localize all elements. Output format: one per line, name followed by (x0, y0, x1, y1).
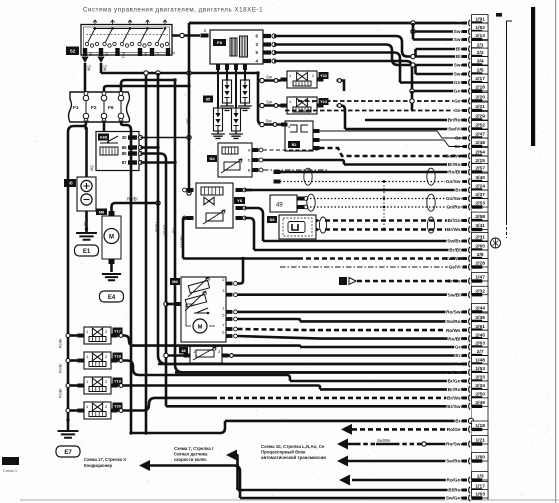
injector Y18 feed stub (68, 359, 78, 362)
ECU pin rung 2/52 wire Sw/Vi (345, 121, 488, 133)
svg-text:Ro/Bl: Ro/Bl (155, 222, 160, 232)
svg-text:2/47: 2/47 (475, 132, 485, 138)
injector Y17 label (113, 328, 123, 335)
schema label bottom left (2, 457, 19, 465)
ECU pin rung 1/17 wire Bl/Ro (238, 482, 489, 494)
svg-text:2/45: 2/45 (475, 332, 485, 338)
svg-text:Y24: Y24 (320, 100, 328, 104)
ECU pin rung 1/47 wire Br/Ge (448, 273, 488, 285)
ECU pin rung 2/31 wire Sw/Br (263, 233, 488, 245)
DIS pin 2 left (201, 34, 209, 38)
svg-text:2/24: 2/24 (475, 184, 485, 190)
wire fuse F6 top to Ro riser (121, 80, 175, 92)
wire ignition pin15 down to bus row (100, 63, 103, 73)
relay K68 box (96, 132, 139, 171)
svg-text:Br/Sw: Br/Sw (447, 404, 461, 409)
svg-text:2/17: 2/17 (475, 76, 485, 82)
ECU pin rung 3/4 wire Sw (413, 57, 488, 69)
wire M4 pin2 up to 2/8 (238, 259, 244, 284)
svg-text:P54: P54 (121, 52, 125, 58)
svg-text:S8: S8 (270, 217, 276, 222)
M4 label (170, 278, 180, 285)
svg-text:Ro/Sw: Ro/Sw (446, 442, 461, 447)
svg-text:B2: B2 (292, 143, 297, 147)
ground junction E7 (66, 418, 69, 421)
svg-text:Ro/Ge: Ro/Ge (447, 427, 461, 432)
svg-text:E7: E7 (64, 450, 72, 456)
plugs label (203, 96, 213, 103)
ECU pin rung 2/7 wire Br (225, 347, 488, 359)
svg-text:Br/Ws: Br/Ws (447, 396, 461, 401)
wire riser x131 to ground row (131, 421, 225, 433)
bus Sw vertical (188, 23, 191, 193)
svg-text:Br/Ro: Br/Ro (448, 387, 461, 392)
fuel pump feed wire Ro/Bl (112, 203, 159, 211)
svg-text:2/8: 2/8 (477, 252, 484, 258)
svg-text:2/5: 2/5 (477, 68, 484, 74)
bus Ro riser to 1/53 (175, 80, 466, 372)
wire fuse F1 bottom to left rail (68, 121, 86, 421)
svg-text:Sw: Sw (454, 37, 461, 42)
svg-text:Br: Br (83, 222, 88, 227)
svg-text:Схема 10, Стрелка L,N,Ao, Се: Схема 10, Стрелка L,N,Ao, Се (261, 444, 325, 449)
wire connector pin3 to 2/64 heavy dashed (320, 148, 467, 156)
M4 actuator box (181, 277, 226, 342)
ECU pin rung 2/47 wire Gr (455, 130, 488, 142)
wire N4 A dashed stub (263, 149, 318, 151)
drop 2/1 (414, 49, 417, 57)
svg-text:49: 49 (276, 203, 283, 209)
svg-text:Sw: Sw (454, 63, 461, 68)
node 2/20 dashed (410, 99, 414, 103)
special 1/47 marker (339, 277, 347, 285)
arrow down pin30 (81, 57, 88, 64)
ECU pin rung 1/63 wire Sw/Gn (240, 490, 488, 502)
wire Y32 out to 2/18 (337, 81, 345, 92)
wire battery to junction (85, 128, 88, 177)
injector Y17 box (78, 327, 118, 344)
svg-text:2/20: 2/20 (475, 95, 485, 101)
svg-text:1/47: 1/47 (475, 275, 485, 281)
N4 pins A D B (248, 148, 263, 173)
svg-text:Ge/Vi: Ge/Vi (449, 265, 461, 270)
Sw feed bus for valves (258, 73, 281, 125)
scan edge right (555, 0, 556, 503)
svg-text:2/32: 2/32 (475, 288, 485, 294)
ECU pin rung 1/91 wire Sw (189, 15, 488, 27)
svg-text:2/53: 2/53 (475, 201, 485, 207)
drop 1/92 (412, 23, 415, 32)
svg-text:Sw/Bl: Sw/Bl (448, 292, 461, 297)
svg-text:A: A (248, 148, 251, 153)
svg-text:Br: Br (455, 419, 460, 424)
ECU pin rung 2/37 wire Gn/Sw (303, 190, 488, 202)
shield ellipse pair1 left (304, 168, 312, 185)
ECU pin rung 2/33 wire Br/Gn (290, 373, 488, 385)
ECU pin rung 2/50 wire Br/Ws (212, 390, 488, 402)
svg-text:Gr: Gr (455, 345, 461, 350)
wire M4 pin5 jog (238, 319, 301, 321)
svg-text:Схема 7, Стрелка I: Схема 7, Стрелка I (174, 446, 213, 451)
ECU pin rung 2/18 wire Gn (412, 83, 488, 95)
wire relay 86 stub (141, 146, 159, 149)
svg-text:Sw: Sw (186, 118, 191, 125)
wire 2/8 solid then dashed (183, 257, 298, 260)
wire Y8 C to 2/31 (245, 208, 264, 241)
svg-text:Ro/Bl: Ro/Bl (59, 389, 63, 398)
injector Y20 feed stub (68, 409, 78, 412)
svg-text:Bl: Bl (456, 47, 461, 52)
drop 2/5 (414, 65, 417, 74)
svg-text:85: 85 (206, 97, 211, 102)
injector Y17 feed stub (68, 334, 78, 337)
ECU pin rung 1/92 wire Sw (413, 23, 488, 35)
svg-text:Ge: Ge (454, 108, 461, 113)
svg-text:Sw: Sw (266, 119, 273, 124)
relay label (98, 134, 109, 141)
svg-text:Gn/Ro: Gn/Ro (446, 205, 460, 210)
arrow 1/3 (339, 475, 350, 486)
svg-text:1/53: 1/53 (475, 366, 485, 372)
relay pins 30 86 85 87 (122, 135, 143, 165)
oxygen sensor label (267, 216, 277, 223)
ECU pin rung 2/1 wire Bl (416, 41, 489, 53)
svg-text:Gn: Gn (454, 89, 461, 94)
svg-text:Ro: Ro (172, 228, 177, 234)
ECU pin rung 1/18 wire Ro/Ge (352, 421, 488, 433)
ECU pin rung 2/28 wire Ge/Vi (280, 259, 488, 271)
battery ground wire (85, 211, 88, 233)
ECU pin rung 3/41 wire Br/Ws (325, 221, 488, 233)
bus Ro/Bl vertical (157, 73, 160, 203)
svg-text:Ro/Bl: Ro/Bl (59, 339, 63, 348)
svg-text:2/61: 2/61 (475, 324, 485, 330)
ECU pin rung 2/61 wire Ro/Ws (310, 322, 488, 334)
ECU pin rung 2/5 wire Sw (416, 66, 489, 78)
ECU pin rung Br-open wire Br (225, 418, 474, 423)
svg-text:Ro/Bl: Ro/Bl (59, 364, 63, 373)
svg-text:2/18: 2/18 (475, 85, 485, 91)
svg-text:2/48: 2/48 (475, 140, 485, 146)
ECU pin rung 2/21 wire Ge (285, 102, 488, 114)
purge valve Y24 label (319, 98, 329, 105)
svg-text:Br: Br (455, 353, 460, 358)
svg-text:M: M (109, 235, 114, 241)
svg-text:F2: F2 (91, 105, 97, 111)
svg-text:2/29: 2/29 (475, 114, 485, 120)
MAP sensor N4 box (218, 143, 252, 177)
svg-text:2/58: 2/58 (475, 214, 485, 220)
shield ellipse pair3 right (427, 217, 434, 233)
crank sensor pair stubs (274, 170, 281, 184)
wire relay 87 to Ro bus (141, 161, 176, 164)
arrow 1/21 (337, 439, 348, 450)
drop 2/13 (412, 32, 415, 40)
svg-text:Sw/Br: Sw/Br (447, 239, 460, 244)
svg-text:2/44: 2/44 (475, 306, 485, 312)
shield ellipse pair1 right (427, 168, 435, 185)
svg-text:Bl: Bl (456, 54, 461, 59)
svg-text:Система управления двигателем,: Система управления двигателем, двигатель… (83, 7, 263, 14)
svg-text:2/28: 2/28 (475, 261, 485, 267)
bus Ro/Bl lower to 1/48 (158, 203, 466, 364)
svg-text:Sw: Sw (103, 65, 108, 72)
svg-text:1/17: 1/17 (475, 484, 485, 490)
ECU pin rung 1/60 wire Sw/Ro (348, 453, 488, 465)
svg-text:30: 30 (122, 135, 127, 140)
top Sw wire to ECU 1/91 (189, 22, 466, 25)
svg-text:2/64: 2/64 (475, 150, 485, 156)
shield drain dotted vertical (383, 182, 385, 230)
svg-text:Y20: Y20 (114, 405, 121, 409)
injector out 1 to 2/63 (118, 336, 301, 348)
svg-text:1/92: 1/92 (475, 25, 485, 31)
riser x146 vertical bus (145, 73, 148, 433)
connector feed Sw (260, 122, 264, 126)
svg-text:1/91: 1/91 (475, 17, 485, 23)
N4 label (207, 155, 217, 162)
injector out 3 to 2/34 (118, 386, 321, 390)
ignition switch label (66, 47, 79, 56)
ECU pin rung 2/45 wire Ro/Bl (320, 330, 488, 342)
svg-text:Sw/Gn: Sw/Gn (446, 496, 461, 501)
wire M4 pin7 dashed jog (238, 329, 311, 330)
wire bus row y73 (101, 72, 258, 75)
svg-text:50: 50 (143, 52, 147, 56)
ECU pin rung 3/40 wire Gn/Sw (280, 173, 488, 185)
svg-text:Sw: Sw (266, 75, 273, 80)
svg-text:F1: F1 (73, 105, 79, 111)
thick separator bar (531, 7, 535, 146)
valve Y32 feed (258, 79, 281, 82)
M4 right pins (222, 277, 237, 338)
svg-text:Sw: Sw (90, 165, 95, 172)
DIS coil windings (230, 38, 237, 56)
svg-text:1/21: 1/21 (475, 438, 485, 444)
svg-text:2/34: 2/34 (475, 383, 485, 389)
svg-text:2/60: 2/60 (475, 244, 485, 250)
ECU pin rung 1/3 wire Ro/Gn (352, 472, 488, 484)
ECU connector rail right (487, 15, 489, 500)
svg-text:скорости колес: скорости колес (174, 457, 207, 462)
ECU pin rung 1/53 wire Br/Gn (175, 364, 488, 376)
temp sensor box (184, 346, 229, 363)
arrow down pin15 (97, 57, 104, 64)
arrow schema17 (139, 460, 150, 471)
svg-text:1/60: 1/60 (475, 455, 485, 461)
E1 label (75, 245, 99, 256)
injector out 2 to 2/33 (118, 361, 291, 382)
box 49 (270, 195, 308, 212)
EGR valve Y32 label (319, 72, 329, 79)
shield ellipse pair2 left (307, 194, 315, 211)
svg-text:2/52: 2/52 (475, 123, 485, 129)
wire N4 B to 2/15 (263, 169, 328, 171)
purge valve Y24 (281, 97, 324, 114)
svg-text:Кондиционер: Кондиционер (84, 463, 112, 468)
oxygen sensor box (279, 215, 320, 239)
injector Y20 label (113, 403, 123, 410)
connector box X30 (281, 121, 320, 151)
ECU pin rung 2/53 wire Gn/Ro (303, 199, 488, 211)
temp sensor label (179, 347, 188, 354)
svg-text:автоматической трансмиссии: автоматической трансмиссии (261, 455, 326, 460)
wire M4 pin6 jog (238, 336, 321, 339)
svg-text:Br/Gn: Br/Gn (163, 225, 168, 237)
svg-text:Ro/Gn: Ro/Gn (446, 478, 460, 483)
svg-text:2/49: 2/49 (475, 400, 485, 406)
svg-text:Sw: Sw (266, 100, 273, 105)
wire fuse F2 top to Sw bus (104, 86, 189, 92)
spark plug grounds lower pair (211, 131, 243, 138)
wire connector pin1 to 2/47 thin (320, 131, 467, 138)
ECU pin rung 2/49 wire Br/Sw (166, 398, 488, 410)
svg-text:86: 86 (122, 145, 127, 150)
svg-text:Y18: Y18 (114, 355, 121, 359)
wire 1/47 dashed (357, 280, 466, 282)
svg-text:F6: F6 (108, 105, 114, 111)
wire DIS pin3 to 3/4 (274, 45, 413, 66)
ECU pin rung 2/20 wire Ge (298, 93, 488, 105)
E4 label (100, 291, 124, 302)
svg-text:E4: E4 (108, 295, 116, 301)
wire DIS pin5 to 2/17 (274, 53, 400, 83)
svg-text:Br/Ro: Br/Ro (448, 162, 461, 167)
svg-text:87: 87 (122, 160, 127, 165)
ECU pin rung 2/34 wire Br/Ro (320, 381, 488, 393)
svg-text:Br/Ws: Br/Ws (447, 227, 461, 232)
ECU pin rung 2/2 wire Bl (413, 48, 488, 60)
battery label (64, 179, 76, 187)
M4 left pin 4 (175, 302, 182, 306)
ECU pin rung 2/24 wire Br (241, 182, 488, 194)
svg-text:Br/Bl: Br/Bl (449, 248, 460, 253)
ECU pin rung 2/64 wire Gn/Ws (446, 148, 488, 160)
svg-text:Y17: Y17 (114, 330, 121, 334)
node 2/18 and drop to 2/20 2/21 (410, 89, 414, 93)
ECU connector rail left (471, 15, 473, 500)
svg-text:Br: Br (455, 188, 460, 193)
wire Y8 D to 2/60 (245, 218, 255, 250)
wire Y24 out to 2/52 riser (337, 106, 346, 130)
ECU pin rung 2/17 wire Gn (400, 74, 488, 86)
svg-text:Sw: Sw (454, 72, 461, 77)
ECU pin rung 2/29 wire Br/Ro (365, 112, 488, 124)
svg-text:B: B (248, 168, 251, 173)
svg-text:K68: K68 (100, 136, 107, 140)
injector Y19 label (113, 378, 123, 385)
spark plug pins (216, 64, 247, 70)
wire ignition pin30 to fuse F1 (84, 63, 87, 92)
svg-text:2/37: 2/37 (475, 192, 485, 198)
ECU pin rung 1/48 wire Ro (158, 356, 488, 368)
svg-text:2/21: 2/21 (475, 104, 485, 110)
svg-text:1/63: 1/63 (475, 492, 485, 498)
ECU pin rung 2/63 wire Gr (300, 339, 488, 351)
valve Y24 feed (258, 104, 281, 107)
spark plug grounds upper pair (220, 103, 252, 110)
svg-text:Y32: Y32 (320, 74, 327, 78)
injector Y18 box (78, 352, 118, 369)
svg-text:Схема 17, Стрелка X: Схема 17, Стрелка X (84, 457, 126, 462)
svg-text:E1: E1 (83, 249, 91, 255)
svg-text:Gn/Sw: Gn/Sw (446, 179, 461, 184)
svg-text:Ro/Bl: Ro/Bl (448, 336, 460, 341)
dash segment on 1/21 (356, 443, 420, 446)
svg-text:P8: P8 (217, 40, 223, 45)
svg-text:Gn: Gn (454, 80, 461, 85)
DIS right pins 6 3 5 4 (256, 34, 277, 64)
svg-text:2/33: 2/33 (475, 375, 485, 381)
node chain at ECU fan (411, 21, 415, 25)
svg-text:Ro/Sw: Ro/Sw (446, 310, 461, 315)
ECU pin rung 2/15 wire Br/Ro (344, 156, 488, 168)
svg-text:Gn/Sw: Gn/Sw (446, 196, 461, 201)
wire fuse F6 bottom to riser x131 (121, 121, 131, 434)
wire Br/Gn bus to temp sensor (166, 354, 184, 357)
wire connector pin2 to 2/48 thin (320, 140, 467, 147)
svg-text:48: 48 (181, 349, 185, 353)
connector label (288, 141, 300, 148)
thin shield line to symbol (507, 21, 513, 225)
wire temp sensor to 2/7 (229, 354, 232, 357)
svg-text:Br/Gn: Br/Gn (447, 379, 460, 384)
svg-text:N4: N4 (209, 156, 215, 161)
svg-text:3/41: 3/41 (475, 223, 485, 229)
scan edge bottom (20, 500, 559, 501)
ECU pin rung 2/60 wire Br/Bl (254, 242, 488, 254)
ground E4 (102, 274, 121, 280)
Y8 pins (183, 188, 247, 220)
battery G1 (77, 177, 96, 211)
svg-text:Y19: Y19 (114, 380, 121, 384)
svg-text:M8: M8 (99, 210, 104, 214)
ignition switch S2 box (81, 20, 172, 55)
small mark top right (496, 13, 502, 17)
svg-text:M4: M4 (172, 279, 178, 284)
svg-text:Bl/Ro: Bl/Ro (448, 488, 460, 493)
svg-text:30: 30 (88, 52, 92, 56)
Y8 label (234, 197, 245, 204)
spark plugs (214, 64, 250, 131)
ECU pin rung 2/13 wire Sw (413, 31, 488, 43)
bus Br/Gn from relay 85 to 2/49 (141, 154, 167, 407)
wire N4 D to 2/15 (263, 160, 344, 165)
wire M4 pin1 to 2/44 (236, 311, 239, 314)
E7 label (56, 446, 80, 457)
arrow schema7 (226, 450, 237, 461)
svg-text:Sw: Sw (87, 65, 92, 72)
svg-text:2/31: 2/31 (475, 235, 485, 241)
wire M4 pin3 to 2/32 (236, 293, 239, 296)
DIS label (213, 39, 226, 46)
svg-text:Sw/Ro: Sw/Ro (446, 459, 460, 464)
svg-text:Sw/Ws: Sw/Ws (377, 438, 390, 443)
svg-text:1/48: 1/48 (475, 358, 485, 364)
svg-text:2/50: 2/50 (475, 392, 485, 398)
svg-text:Сигнал датчика: Сигнал датчика (174, 452, 208, 457)
injector Y20 box (78, 402, 118, 419)
throttle Y8 box (196, 183, 233, 228)
ECU pin rung 2/36 wire Sw/Ro (300, 313, 488, 325)
svg-text:1/3: 1/3 (477, 474, 484, 480)
arrow 1/18 (341, 424, 352, 435)
svg-text:Схема 3: Схема 3 (3, 469, 17, 473)
svg-text:2/13: 2/13 (475, 33, 485, 39)
injector Y18 label (113, 353, 123, 360)
svg-text:Ro/Ws: Ro/Ws (446, 328, 461, 333)
svg-text:3/4: 3/4 (477, 59, 484, 65)
